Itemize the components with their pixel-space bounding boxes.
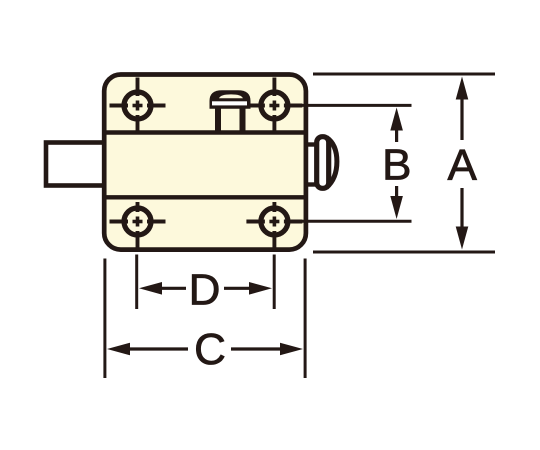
slide band bottom line xyxy=(102,195,307,199)
knob dome (right bulge) xyxy=(327,138,337,188)
screw hole top-right xyxy=(246,78,302,134)
dimension A line lower segment xyxy=(460,188,463,230)
dimension D line right segment xyxy=(224,287,250,290)
knob stem top line (right side) xyxy=(304,142,317,146)
dimension C right extension line xyxy=(304,259,307,379)
knob flange xyxy=(317,137,329,189)
svg-text:B: B xyxy=(382,141,411,190)
dimension A bottom extension line xyxy=(313,251,495,254)
dimension A top extension line xyxy=(313,73,495,76)
svg-text:D: D xyxy=(189,266,221,315)
dimension D arrow right xyxy=(249,282,272,295)
plate (latch body) xyxy=(104,75,306,250)
dimension D line left segment xyxy=(160,287,186,290)
screw hole top-left xyxy=(110,78,166,134)
slotted button cap (top center) xyxy=(210,90,251,109)
button stem right line xyxy=(240,107,246,132)
dimension B line upper segment xyxy=(395,128,398,142)
slide band top line xyxy=(102,130,307,134)
dimension A line upper segment xyxy=(460,98,463,140)
knob stem bottom line (right side) xyxy=(304,182,317,186)
svg-text:A: A xyxy=(448,141,478,190)
bolt (latch tongue, left side) xyxy=(46,143,105,186)
dimension B bottom extension line xyxy=(302,220,412,223)
dimension C arrow left xyxy=(107,343,130,356)
dimension B top extension line xyxy=(302,104,412,107)
dimension C arrow right xyxy=(280,343,303,356)
button cap inner window (cream) xyxy=(219,94,243,98)
button slot (white) xyxy=(212,101,247,105)
dimension C left extension line xyxy=(103,259,106,379)
dimension D arrow left xyxy=(139,282,162,295)
screw hole bottom-left xyxy=(110,202,166,250)
dimension D left extension line xyxy=(135,255,138,310)
dimension B arrow down xyxy=(390,196,403,219)
dimension C line right segment xyxy=(231,347,282,350)
dimension D right extension line xyxy=(273,255,276,310)
dimension B arrow up xyxy=(390,108,403,131)
screw hole bottom-right xyxy=(246,202,302,250)
svg-text:C: C xyxy=(194,325,226,374)
button stem left line xyxy=(215,107,221,132)
dimension C line left segment xyxy=(128,347,188,350)
dimension A arrow down xyxy=(456,227,469,250)
dimension B line lower segment xyxy=(395,186,398,198)
dimension A arrow up xyxy=(456,77,469,100)
